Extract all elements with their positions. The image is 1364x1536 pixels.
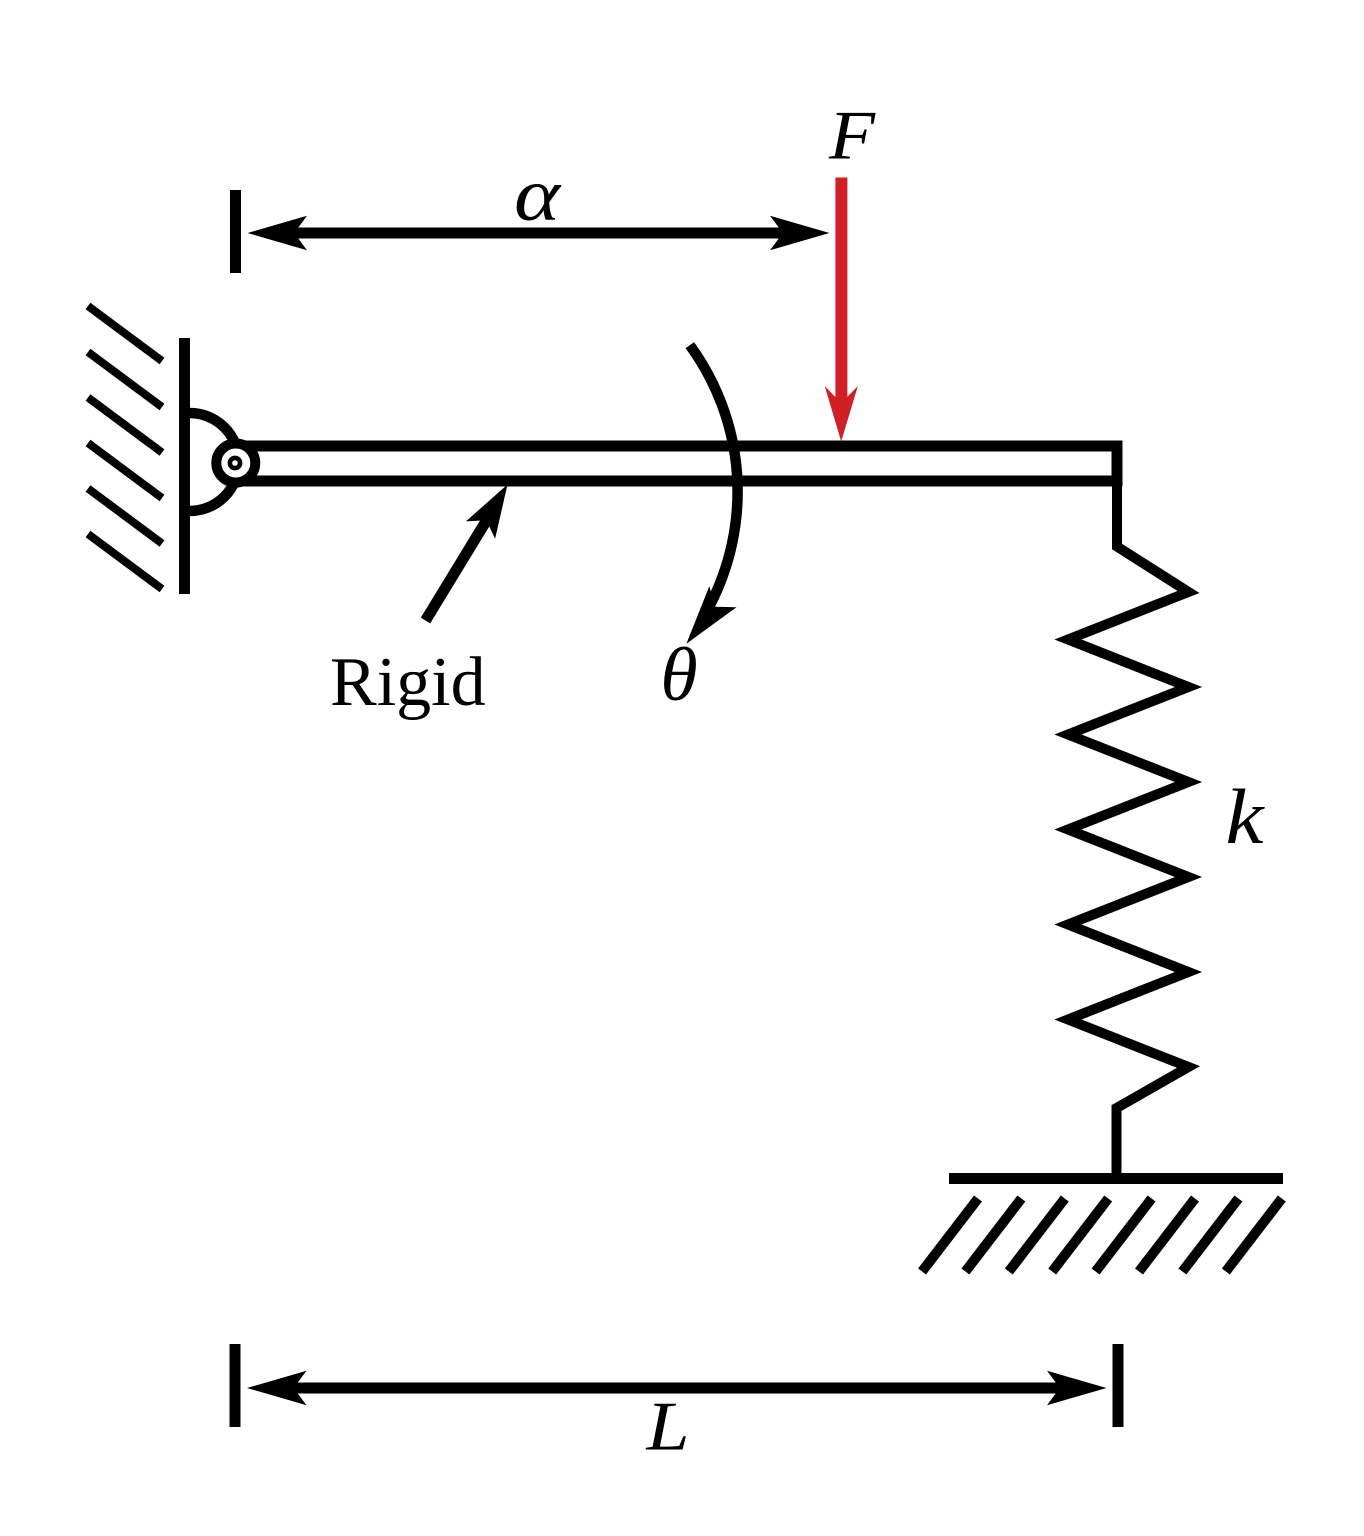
alpha dimension tick (230, 190, 241, 273)
Rigid pointer arrowhead (466, 485, 508, 539)
ground hatch 3 (1009, 1199, 1065, 1272)
L dimension right tick (1113, 1344, 1124, 1427)
L dimension line (292, 1383, 1061, 1394)
wall (fixed support line) (179, 338, 190, 594)
rotation arc theta (690, 345, 738, 608)
wall hatch 3 (88, 398, 162, 453)
pin hinge circle (216, 444, 255, 483)
svg-text:θ: θ (660, 633, 697, 717)
svg-text:k: k (1226, 773, 1266, 860)
ground hatch 5 (1096, 1199, 1152, 1272)
svg-text:Rigid: Rigid (330, 644, 486, 721)
ground hatch 7 (1182, 1199, 1238, 1272)
L right arrowhead (1047, 1371, 1107, 1405)
wall hatch 1 (88, 306, 162, 361)
svg-text:F: F (828, 98, 876, 175)
svg-text:α: α (514, 154, 562, 237)
ground hatch 4 (1052, 1199, 1108, 1272)
wall hatch 6 (88, 534, 162, 589)
alpha right arrowhead (770, 216, 830, 250)
L dimension left tick (230, 1344, 241, 1427)
svg-text:L: L (645, 1389, 689, 1466)
force arrow F (red) (825, 178, 858, 442)
ground hatch 2 (965, 1199, 1021, 1272)
pin center dot (230, 458, 240, 468)
wall hatch 2 (88, 352, 162, 407)
ground hatch 8 (1226, 1199, 1282, 1272)
ground hatch 1 (922, 1199, 978, 1272)
pin support bracket (semicircle) (190, 413, 239, 511)
ground line (949, 1173, 1283, 1184)
L left arrowhead (247, 1371, 307, 1405)
Rigid pointer arrow shaft (426, 518, 489, 621)
wall hatch 5 (88, 489, 162, 544)
alpha dimension line (292, 228, 785, 239)
wall hatch 4 (88, 443, 162, 498)
spring k (1068, 481, 1189, 1183)
rigid beam (236, 446, 1117, 481)
ground hatch 6 (1139, 1199, 1195, 1272)
theta arc arrowhead (686, 586, 736, 644)
alpha left arrowhead (248, 216, 308, 250)
